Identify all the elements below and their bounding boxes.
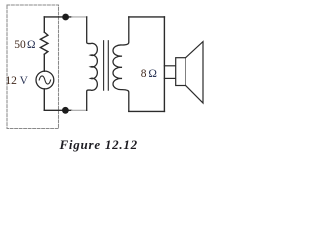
wire resistor top lead [43,17,45,32]
transformer core line left [103,41,105,90]
wire source bottom lead [43,89,45,110]
ac source sine symbol [39,76,50,84]
wire bottom faded segment [72,109,87,111]
speaker driver box [176,58,186,86]
label 8 ohm [141,69,157,81]
wire load loop right [163,17,165,112]
transformer secondary winding L2 [113,17,129,112]
wire speaker lead lower [164,77,175,79]
node dot b (bottom terminal) [62,107,69,114]
transformer core line right [107,41,109,90]
wire bottom (source loop), dark part [44,109,71,111]
label 12 V [5,76,27,88]
Thevenin source dashed box [7,5,59,129]
wire speaker lead upper [164,65,175,67]
transformer primary winding L1 [87,17,98,110]
ac source V1 circle [36,71,54,89]
caption Figure 12.12 [60,138,138,151]
wire resistor to source [43,54,45,71]
wire top faded segment [72,16,87,18]
wire load loop bottom [129,110,165,112]
resistor R (50 ohm) zigzag [40,32,48,54]
node dot a (top terminal) [62,14,69,21]
speaker horn cone [186,42,203,103]
label 50 ohm [14,40,35,52]
wire load loop top [129,16,165,18]
wire top (source to transformer), dark part [44,16,71,18]
